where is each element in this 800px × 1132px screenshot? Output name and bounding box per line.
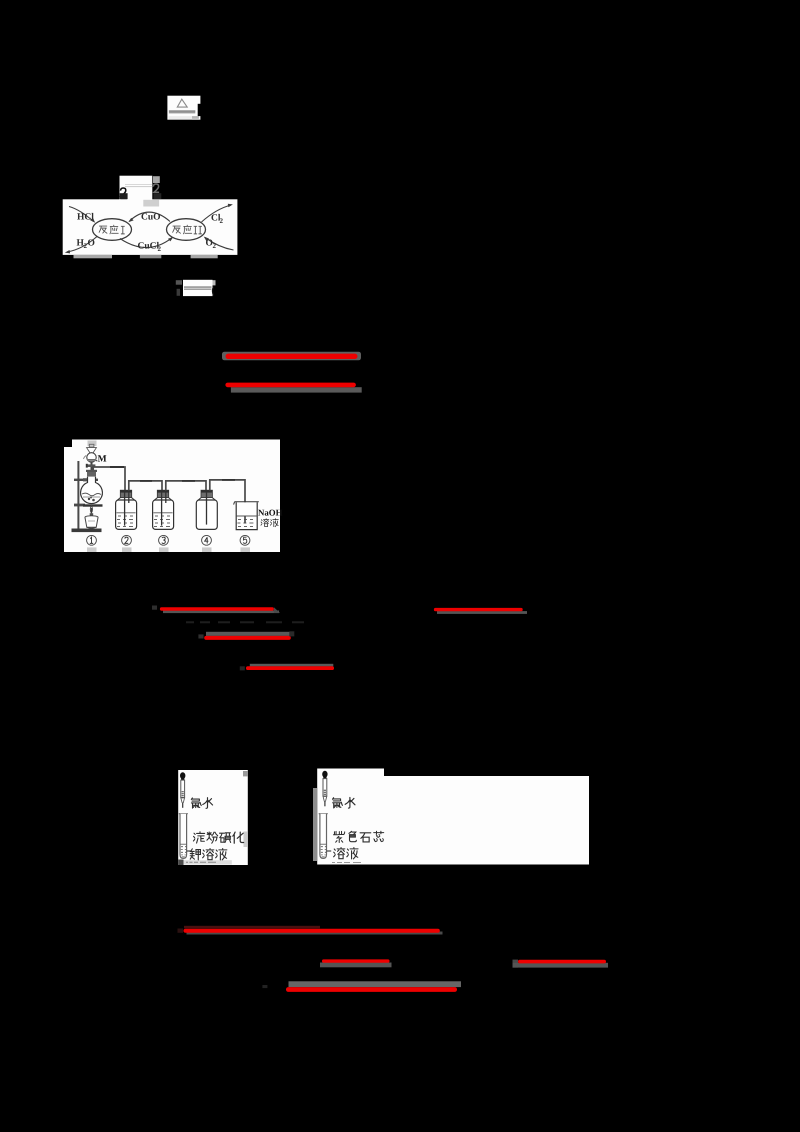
label: purple litmus solution (333, 831, 383, 859)
experiment card: chlorine water + purple litmus solution (313, 769, 589, 865)
red underline row mid-right (434, 608, 527, 614)
red underline bar pair (top) bar 2 (225, 383, 361, 393)
svg-text:2: 2 (158, 245, 162, 253)
iron stand (72, 461, 103, 532)
arrow: O2 input (204, 237, 234, 251)
red underline bottom row3 (286, 981, 461, 992)
label: starch potassium iodide solution (190, 832, 243, 860)
dropper: chlorine water (right card) (322, 771, 327, 807)
red underline row mid-left (160, 607, 280, 613)
faint scan marks row above mid bars (152, 606, 304, 989)
equation fragment box: heating condition (triangle over equals) (167, 96, 200, 120)
ellipse node: reaction I (93, 219, 132, 241)
test tube (left card) (179, 814, 192, 859)
label: chlorine water (left card) (191, 798, 212, 809)
arrow: CuO from II to I (top curve) (128, 212, 170, 222)
connecting tube from flask to bottle 2 (93, 466, 125, 491)
arrow: H2O output (65, 237, 97, 254)
red underline bottom row2 right (513, 960, 609, 968)
arrow: HCl input (69, 207, 95, 223)
tube bottle3 to bottle4 (166, 480, 206, 491)
equation fragment box: "2 = 2" (120, 176, 161, 204)
gas washing bottle 3 (153, 490, 174, 529)
separating funnel M (86, 444, 107, 470)
label CuO (141, 213, 161, 223)
arrow: CuCl2 from I to II (bottom curve) (120, 237, 173, 248)
svg-text:HCl: HCl (77, 213, 94, 223)
svg-text:CuO: CuO (141, 213, 161, 223)
svg-text:2: 2 (220, 217, 224, 225)
label NaOH solution (258, 508, 283, 527)
svg-text:CuCl: CuCl (138, 242, 160, 252)
experiment card: chlorine water + starch KI solution (178, 770, 248, 865)
red underline mid second row (204, 632, 291, 640)
dropper: chlorine water (left card) (180, 772, 185, 808)
label: chlorine water (right card) (333, 797, 355, 808)
red underline bar pair (top) bar 1 (222, 352, 361, 361)
gas generation apparatus panel (64, 440, 280, 553)
red underline mid third row (246, 664, 334, 670)
tube bottle4 to beaker (210, 479, 245, 524)
test tube (right card) (319, 814, 332, 859)
round-bottom flask (81, 456, 103, 504)
equation fragment box: "=" with paren (176, 280, 216, 296)
reaction cycle diagram panel (63, 193, 238, 258)
svg-text:M: M (98, 454, 107, 464)
beaker with NaOH solution (234, 502, 259, 530)
alcohol lamp (85, 506, 98, 529)
svg-text:O: O (88, 239, 95, 249)
svg-text:NaOH: NaOH (258, 508, 283, 518)
gas washing bottle 2 (116, 490, 137, 529)
red underline bottom long (184, 926, 443, 935)
tube bottle2 to bottle3 (129, 480, 162, 491)
red underline bottom row2 left (320, 959, 392, 967)
arrow: Cl2 output (202, 204, 233, 225)
safety bottle 4 (196, 490, 217, 529)
ellipse node: reaction II (167, 219, 206, 241)
label CuCl2 (138, 242, 162, 254)
circled labels 1-5 (87, 535, 250, 552)
svg-text:2: 2 (213, 242, 217, 250)
